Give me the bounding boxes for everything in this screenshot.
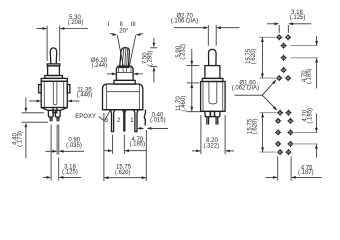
dim 15.75 front dimension line (104, 176, 146, 179)
svg-text:(.173): (.173) (17, 131, 23, 147)
dim 6.20 arrows (107, 73, 143, 76)
top pattern holes (276, 34, 292, 81)
dim 4.70 (.185) front label (129, 137, 145, 148)
dim 11.70 dimension line (186, 66, 200, 112)
svg-text:III: III (131, 22, 136, 28)
dim 15.75 (.620) bottom pattern rotated label (248, 118, 259, 134)
dim 3.18 dimension line left (43, 176, 81, 179)
svg-text:(.620): (.620) (115, 170, 131, 176)
right view pin stubs (205, 111, 220, 117)
bent pin profile (squiggle) (144, 110, 145, 126)
dim 15.75 front extension lines (104, 113, 146, 181)
bottom pattern row guide lines left (260, 113, 277, 152)
dim 4.70 top pattern dimension line (315, 36, 318, 89)
svg-text:EPOXY: EPOXY (75, 114, 96, 120)
left view top plate (41, 78, 67, 81)
dim 2.70 dimension line (174, 26, 240, 29)
svg-text:(.185): (.185) (307, 108, 313, 124)
dim 3.18 (.125) label left (62, 164, 78, 175)
right view body (201, 82, 226, 112)
dim 0.90 dimension line (46, 150, 85, 153)
dim 3.18 extension line right pin (58, 158, 60, 181)
dim 4.75 dimension line (265, 176, 321, 179)
svg-text:(.232): (.232) (181, 44, 187, 60)
svg-text:(.620): (.620) (251, 49, 257, 65)
dim 6.20 (.244) label (91, 58, 108, 69)
dim 15.75 (.620) top pattern rotated label (246, 48, 257, 64)
dim 0.40 (.015) label (150, 113, 166, 124)
svg-text:(.125): (.125) (62, 169, 78, 175)
svg-text:(.460): (.460) (181, 96, 187, 112)
left view body bottom epoxy seam (41, 108, 67, 111)
dim 4.75 (.187) label (298, 165, 314, 176)
svg-text:(.187): (.187) (298, 170, 314, 176)
left view pins (50, 117, 59, 121)
left view toggle bat (50, 48, 56, 64)
pin number labels (105, 118, 135, 124)
dim 8.20 (.322) label (203, 138, 219, 149)
right view toggle bat (209, 49, 217, 65)
right view collar (205, 66, 220, 79)
left view center channel (53, 81, 57, 105)
dim 11.35 arrows (29, 100, 80, 103)
bottom pattern row guide lines right (294, 132, 318, 144)
dim 3.18 right extension lines (279, 25, 288, 33)
bottom pattern holes (275, 109, 294, 155)
dim 15.75 top pattern dimension line (261, 37, 264, 78)
svg-text:(.015): (.015) (150, 118, 166, 124)
dim 7.50 (.295) rotated label (143, 50, 154, 66)
svg-text:(.185): (.185) (129, 142, 145, 148)
dim 15.75 (.620) front label (115, 165, 132, 176)
dim 4.70 (.185) top pattern rotated label (302, 68, 313, 84)
front pin 3 (110, 110, 114, 132)
left view actuator collar (47, 64, 60, 76)
dim 5.90 dimension line (187, 49, 200, 66)
dim 11.35 (.446) label (77, 88, 93, 99)
dim 3.18 right dimension line (267, 22, 311, 25)
svg-text:(.295): (.295) (148, 50, 154, 66)
svg-text:(.035): (.035) (66, 143, 82, 149)
dim 4.40 (.173) rotated label (12, 131, 23, 147)
dim 0.40 dimension line (138, 127, 168, 130)
lever bat tilted (120, 48, 130, 68)
dim 4.75 extension lines (278, 157, 291, 181)
svg-text:(.062 DIA): (.062 DIA) (232, 86, 259, 92)
svg-text:(.185): (.185) (307, 68, 313, 84)
dim 4.70 (.185) bottom pattern rotated label (303, 108, 314, 124)
svg-text:(.125): (.125) (290, 15, 306, 21)
EPOXY leader line (99, 110, 111, 121)
dim 0.90 (.035) label (66, 137, 82, 149)
left view flange (45, 76, 63, 79)
dim 5.30 dimension line with arrows (37, 27, 89, 30)
dim 2.70 extension lines (208, 25, 216, 46)
front pin 2 (122, 110, 127, 132)
right view pins (207, 117, 218, 125)
svg-text:(.244): (.244) (91, 63, 107, 69)
front flange (114, 80, 135, 84)
right view flange (202, 78, 223, 81)
front body (103, 84, 143, 110)
dim 4.40 dimension line (22, 98, 49, 159)
left view pin stubs (48, 110, 60, 117)
left view center signal pin (53, 108, 57, 113)
svg-text:(.322): (.322) (203, 144, 219, 150)
front pin 1 (134, 110, 138, 132)
dim 1.60 (.062 DIA) label (232, 81, 259, 92)
top pattern row guide lines left (259, 37, 276, 78)
top pattern row guide lines right (291, 46, 319, 58)
svg-text:(.106 DIA): (.106 DIA) (171, 18, 198, 24)
dim 15.75 bottom pattern dimension line (261, 113, 264, 152)
dim 5.30 (.208) label (68, 15, 84, 26)
dim 5.30 extension lines (47, 26, 60, 62)
dim 2.70 (.106 DIA) label (171, 14, 198, 25)
angle arrows (110, 33, 143, 36)
dim 0.90 extension lines (57, 125, 59, 155)
dim 5.90 (.232) rotated label (176, 44, 187, 60)
dim 8.20 dimension line (192, 150, 234, 153)
right view center signal pin (211, 111, 215, 116)
angle legs (lever travel lines) (117, 35, 135, 68)
left view mounting ears (39, 85, 70, 93)
dim 4.70 front extension lines (113, 135, 125, 154)
dim 7.50 dimension line (150, 38, 157, 83)
dim 4.70 front dimension line (105, 149, 147, 152)
position labels I II III (108, 22, 136, 28)
svg-text:20°: 20° (119, 28, 129, 34)
dim 3.18 extension line left pin (50, 125, 52, 181)
dim 8.20 extension lines (201, 115, 225, 154)
front bushing (116, 66, 133, 80)
svg-text:(.620): (.620) (252, 119, 258, 135)
left view body (41, 81, 67, 107)
svg-text:II: II (120, 22, 124, 28)
svg-text:(.446): (.446) (77, 93, 93, 99)
dim 1.60 leader lines (235, 80, 278, 111)
dim 11.70 (.460) rotated label (176, 96, 187, 112)
dim 4.70 bottom pattern dimension line (315, 114, 318, 158)
svg-text:(.208): (.208) (68, 20, 84, 26)
dim 3.18 (.125) label right (290, 10, 306, 21)
